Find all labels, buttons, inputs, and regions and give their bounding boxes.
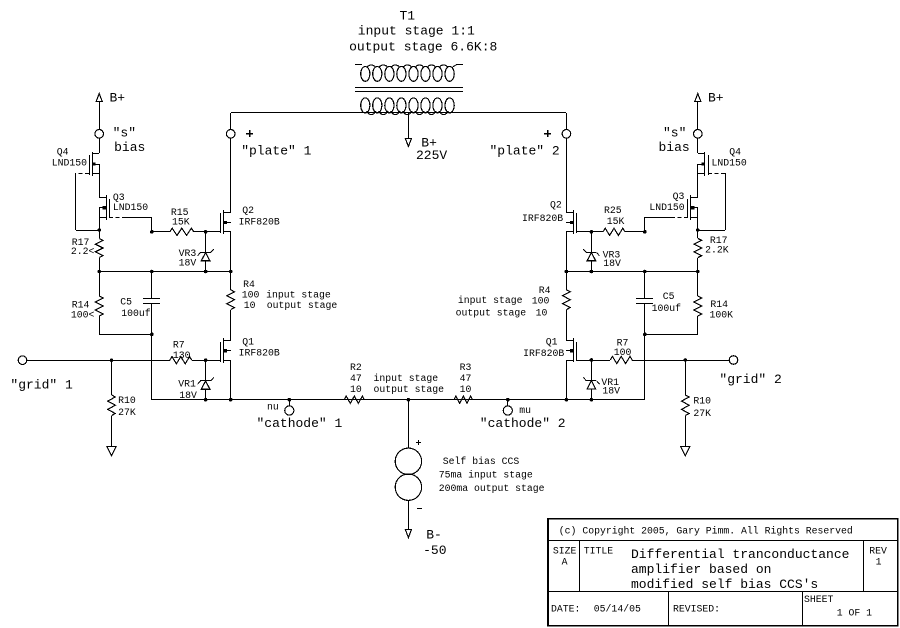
- svg-text:REVISED:: REVISED:: [673, 604, 720, 615]
- svg-text:100: 100: [532, 296, 550, 307]
- title block copyright divider: [548, 540, 898, 542]
- svg-text:R10: R10: [693, 396, 711, 407]
- zener diode VR3 left 18V: [198, 232, 214, 272]
- wire - plate 1 rail to Q2 drain: [230, 138, 232, 212]
- svg-text:2.2K: 2.2K: [705, 245, 729, 256]
- transformer T1 core: [355, 88, 463, 92]
- svg-text:R2: R2: [350, 362, 362, 373]
- svg-text:R10: R10: [118, 395, 136, 406]
- node - Q4 gate / Q3 source / R17 junction right: [696, 228, 700, 232]
- terminal "grid" 1 circle: [18, 356, 27, 365]
- svg-text:Q4: Q4: [729, 146, 741, 157]
- svg-text:modified self bias CCS's: modified self bias CCS's: [631, 577, 818, 592]
- node - VR3 right bottom junction: [590, 270, 594, 274]
- node - R17 bottom junction right: [696, 270, 700, 274]
- wire - R14 right bottom to C5 column: [645, 334, 698, 336]
- svg-text:A: A: [562, 557, 568, 568]
- svg-text:IRF820B: IRF820B: [239, 217, 280, 228]
- svg-text:2.2<: 2.2<: [71, 246, 95, 257]
- node B - R17 bottom junction: [97, 270, 101, 274]
- wire - bias circle to Q4 drain right: [697, 138, 699, 153]
- svg-text:100: 100: [614, 347, 632, 358]
- svg-text:Differential tranconductance: Differential tranconductance: [631, 547, 849, 562]
- svg-text:47: 47: [460, 373, 472, 384]
- svg-text:1 OF 1: 1 OF 1: [837, 608, 872, 619]
- svg-text:100K: 100K: [710, 310, 734, 321]
- svg-text:Self bias CCS: Self bias CCS: [443, 456, 520, 467]
- transistor Q1 left (IRF820B): [221, 338, 232, 363]
- wire - bias circle to Q4 drain: [99, 138, 101, 153]
- transformer T1 secondary winding: [361, 98, 455, 115]
- transistor Q2 right (IRF820B): [566, 210, 577, 234]
- transformer center tap wire: [408, 113, 410, 138]
- resistor R14 left: [95, 272, 103, 334]
- power symbol B+ left: [96, 94, 102, 130]
- svg-text:10: 10: [244, 300, 256, 311]
- ground arrow left: [107, 447, 116, 456]
- title block revised/sheet divider: [802, 591, 804, 626]
- current source CCS circle 2: [395, 474, 421, 500]
- svg-text:75ma input stage: 75ma input stage: [439, 470, 533, 481]
- label + plate 2: [544, 130, 551, 137]
- svg-text:(c) Copyright 2005, Gary Pimm.: (c) Copyright 2005, Gary Pimm. All Right…: [559, 525, 853, 536]
- svg-text:225V: 225V: [416, 148, 447, 163]
- node - C5 top junction: [150, 270, 154, 274]
- wire - Q2 source down rail: [230, 232, 232, 272]
- transistor Q4 left (LND150): [90, 152, 100, 176]
- resistor R2: [344, 396, 364, 403]
- svg-text:R3: R3: [460, 362, 472, 373]
- svg-text:R14: R14: [710, 299, 728, 310]
- svg-text:Q2: Q2: [242, 205, 254, 216]
- wire - Q2 right gate lead: [577, 231, 603, 233]
- wire - grid 1 to R7: [27, 360, 170, 362]
- wire - C5 right column down to bottom rail: [644, 334, 646, 400]
- svg-text:nu: nu: [267, 401, 279, 412]
- node - VR1 right top junction: [590, 358, 594, 362]
- wire - R14 bottom to C5 column: [99, 334, 152, 336]
- resistor R15: [152, 228, 220, 235]
- node - C5 bottom junction left: [150, 333, 154, 337]
- svg-text:"grid" 2: "grid" 2: [719, 372, 781, 387]
- node - R15 right / VR3 top junction: [204, 230, 208, 234]
- zener diode VR1 left 18V: [198, 360, 214, 400]
- wire - plate 2 rail to Q2 drain: [566, 138, 568, 212]
- svg-text:C5: C5: [120, 297, 132, 308]
- svg-text:R4: R4: [539, 285, 551, 296]
- svg-text:IRF820B: IRF820B: [522, 213, 563, 224]
- wire - Q4 right gate return down: [725, 173, 727, 230]
- node nu junction: [288, 398, 292, 402]
- resistor R25: [603, 228, 645, 235]
- svg-text:15K: 15K: [607, 216, 625, 227]
- wire - Q3 gate corner down to R15 node: [151, 217, 153, 232]
- node - R15/C5 column top junction: [150, 230, 154, 234]
- svg-text:output stage 6.6K:8: output stage 6.6K:8: [349, 40, 497, 55]
- svg-text:-50: -50: [423, 543, 446, 558]
- zener diode VR3 right 18V: [583, 232, 599, 272]
- svg-text:input stage: input stage: [458, 295, 523, 306]
- node - VR3 bottom junction: [204, 270, 208, 274]
- svg-text:amplifier based on: amplifier based on: [631, 562, 771, 577]
- wire - R7 right to grid 2 terminal: [632, 360, 729, 362]
- svg-text:SHEET: SHEET: [804, 594, 834, 605]
- svg-text:VR1: VR1: [178, 378, 196, 389]
- svg-text:R25: R25: [604, 205, 622, 216]
- svg-text:10: 10: [350, 384, 362, 395]
- svg-text:"plate" 1: "plate" 1: [241, 144, 311, 159]
- wire - Q3 gate dashed lead: [109, 217, 123, 219]
- resistor R17 right: [694, 230, 702, 272]
- label - CCS: [417, 508, 422, 510]
- wire - Q1 right source down to bottom rail: [566, 360, 568, 400]
- svg-text:input stage: input stage: [374, 373, 439, 384]
- terminal "cathode" 2 circle mu: [503, 400, 512, 415]
- wire - Q4 source to Q3 drain: [99, 164, 101, 198]
- svg-text:Q1: Q1: [242, 336, 254, 347]
- label + CCS: [416, 440, 421, 445]
- wire - Q1 source down to bottom rail: [230, 360, 232, 400]
- resistor R10 left: [108, 360, 116, 446]
- wire - Q3 right gate dashed lead: [674, 217, 688, 219]
- wire - Q4 gate dashed lead: [76, 173, 89, 175]
- node mu junction: [506, 398, 510, 402]
- svg-text:input stage 1:1: input stage 1:1: [358, 24, 475, 39]
- wire - Q3 right gate corner down to R25 node: [644, 217, 646, 232]
- svg-text:mu: mu: [519, 405, 531, 416]
- svg-text:Q3: Q3: [673, 191, 685, 202]
- current source CCS circle 1: [395, 448, 421, 474]
- wire - center tail to CCS: [408, 400, 410, 448]
- svg-text:B+: B+: [708, 91, 724, 106]
- node A - Q4 gate / Q3 source / R17 junction: [97, 228, 101, 232]
- wire - CCS to B-: [408, 500, 410, 529]
- node - center tail junction: [407, 398, 411, 402]
- wire - C5 column down to bottom rail: [151, 334, 153, 400]
- svg-text:IRF820B: IRF820B: [523, 348, 564, 359]
- title block title/rev divider: [863, 541, 865, 591]
- svg-text:DATE:: DATE:: [551, 604, 580, 615]
- wire - bottom cathode rail: [152, 399, 645, 401]
- svg-text:100<: 100<: [71, 310, 95, 321]
- wire - secondary top rail from left plate to right plate: [231, 112, 566, 114]
- terminal "plate" 2 circle: [562, 113, 571, 138]
- node - C5 bottom junction right: [643, 333, 647, 337]
- transistor Q2 left (IRF820B): [221, 210, 232, 234]
- svg-text:B+: B+: [110, 91, 126, 106]
- svg-text:100uf: 100uf: [652, 303, 682, 314]
- svg-text:input stage: input stage: [266, 289, 331, 300]
- zener diode VR1 right 18V: [583, 360, 599, 400]
- power symbol B+ right: [695, 94, 701, 130]
- svg-text:TITLE: TITLE: [584, 546, 614, 557]
- title block size/title divider: [579, 541, 581, 591]
- svg-text:1: 1: [876, 557, 882, 568]
- svg-text:10: 10: [536, 307, 548, 318]
- svg-text:Q2: Q2: [550, 200, 562, 211]
- wire - Q3 gate lead to corner: [123, 217, 152, 219]
- svg-text:IRF820B: IRF820B: [239, 348, 280, 359]
- svg-text:output stage: output stage: [267, 300, 338, 311]
- node - R25 right junction: [643, 230, 647, 234]
- svg-text:Q1: Q1: [546, 337, 558, 348]
- svg-text:05/14/05: 05/14/05: [594, 604, 641, 615]
- svg-text:47: 47: [350, 373, 362, 384]
- label + plate 1: [246, 130, 253, 137]
- node - C5 right top junction: [643, 270, 647, 274]
- svg-text:"grid" 1: "grid" 1: [10, 377, 73, 392]
- svg-text:100: 100: [242, 289, 260, 300]
- wire - Q3 source to node A: [99, 208, 101, 230]
- svg-text:200ma output stage: 200ma output stage: [439, 483, 545, 494]
- ground arrow right: [681, 447, 690, 456]
- svg-text:output stage: output stage: [374, 384, 445, 395]
- svg-text:LND150: LND150: [52, 158, 87, 169]
- power symbol B- arrow: [405, 529, 411, 537]
- transistor Q3 left (LND150): [99, 195, 110, 220]
- svg-text:"s": "s": [663, 125, 686, 140]
- node - Q1 right source junction: [565, 398, 569, 402]
- node - R10 top junction right: [684, 358, 688, 362]
- svg-text:REV: REV: [869, 546, 887, 557]
- wire - R7 to Q1 gate: [192, 360, 220, 362]
- svg-text:27K: 27K: [693, 408, 711, 419]
- resistor R7 left: [170, 357, 192, 364]
- resistor R7 right: [610, 356, 632, 363]
- capacitor C5 right: [636, 272, 653, 334]
- node - VR1 right bottom junction: [590, 398, 594, 402]
- svg-text:100uf: 100uf: [121, 308, 151, 319]
- resistor R4 left: [227, 272, 235, 341]
- capacitor C5 left: [143, 272, 160, 334]
- svg-text:130: 130: [173, 350, 191, 361]
- transformer T1 primary winding: [355, 65, 463, 82]
- resistor R4 right: [563, 272, 571, 340]
- transistor Q1 right (IRF820B): [566, 338, 577, 362]
- svg-text:LND150: LND150: [712, 158, 747, 169]
- svg-text:18V: 18V: [179, 257, 197, 268]
- svg-text:LND150: LND150: [649, 202, 684, 213]
- terminal "s" bias right: [694, 130, 703, 139]
- terminal "grid" 2 circle: [729, 356, 738, 365]
- svg-text:bias: bias: [659, 140, 690, 155]
- svg-text:15K: 15K: [172, 217, 190, 228]
- svg-text:B-: B-: [426, 528, 442, 543]
- node - rail y271 at plate rail right: [565, 270, 569, 274]
- terminal "cathode" 1 circle nu: [285, 400, 294, 415]
- wire - Q3 right source to node: [697, 208, 699, 230]
- terminal "s" bias left: [95, 130, 104, 139]
- terminal "plate" 1 circle: [226, 113, 235, 138]
- power symbol B+ 225V arrow: [405, 138, 411, 146]
- svg-text:27K: 27K: [118, 407, 136, 418]
- node - VR3 right top junction: [590, 230, 594, 234]
- svg-text:"cathode" 2: "cathode" 2: [480, 416, 566, 431]
- title block date/revised divider: [668, 591, 670, 626]
- svg-text:T1: T1: [400, 9, 416, 24]
- svg-text:18V: 18V: [603, 258, 621, 269]
- svg-text:18V: 18V: [602, 386, 620, 397]
- resistor R10 right: [682, 360, 690, 446]
- node - VR1 left bottom junction: [204, 398, 208, 402]
- wire - Q4 right source to Q3 drain: [697, 164, 699, 198]
- wire - rail y271 right: [566, 271, 698, 273]
- svg-text:SIZE: SIZE: [553, 546, 577, 557]
- node - R10 top junction left: [110, 358, 114, 362]
- svg-text:output stage: output stage: [456, 307, 527, 318]
- node - Q1 left source junction: [229, 398, 233, 402]
- wire - Q4 gate return down: [75, 173, 77, 230]
- wire - Q2 right source down rail: [566, 232, 568, 272]
- wire - Q4 right gate dashed lead: [708, 173, 725, 175]
- title block bottom row divider: [548, 591, 898, 593]
- node - rail y271 junction at plate rail: [229, 270, 233, 274]
- resistor R17 left: [95, 230, 103, 272]
- transistor Q4 right (LND150): [698, 152, 709, 176]
- wire - Q1 right gate lead: [577, 360, 610, 362]
- resistor R3: [454, 396, 472, 403]
- svg-text:"cathode" 1: "cathode" 1: [257, 416, 343, 431]
- transistor Q3 right (LND150): [688, 195, 699, 220]
- title block border: [548, 519, 898, 626]
- svg-text:10: 10: [460, 384, 472, 395]
- svg-text:bias: bias: [114, 140, 145, 155]
- svg-text:C5: C5: [663, 291, 675, 302]
- svg-text:"s": "s": [113, 125, 136, 140]
- wire - Q3 right gate lead to corner: [645, 217, 674, 219]
- svg-text:"plate" 2: "plate" 2: [490, 144, 560, 159]
- wire - Q4 gate return to node: [76, 230, 99, 232]
- svg-text:Q4: Q4: [57, 146, 69, 157]
- svg-text:LND150: LND150: [113, 202, 148, 213]
- wire - Q4 right gate return to node: [698, 230, 725, 232]
- node - VR1 top junction left: [204, 358, 208, 362]
- resistor R14 right: [694, 272, 702, 334]
- wire - bias node horizontal rail y271: [99, 271, 231, 273]
- svg-text:R7: R7: [173, 340, 185, 351]
